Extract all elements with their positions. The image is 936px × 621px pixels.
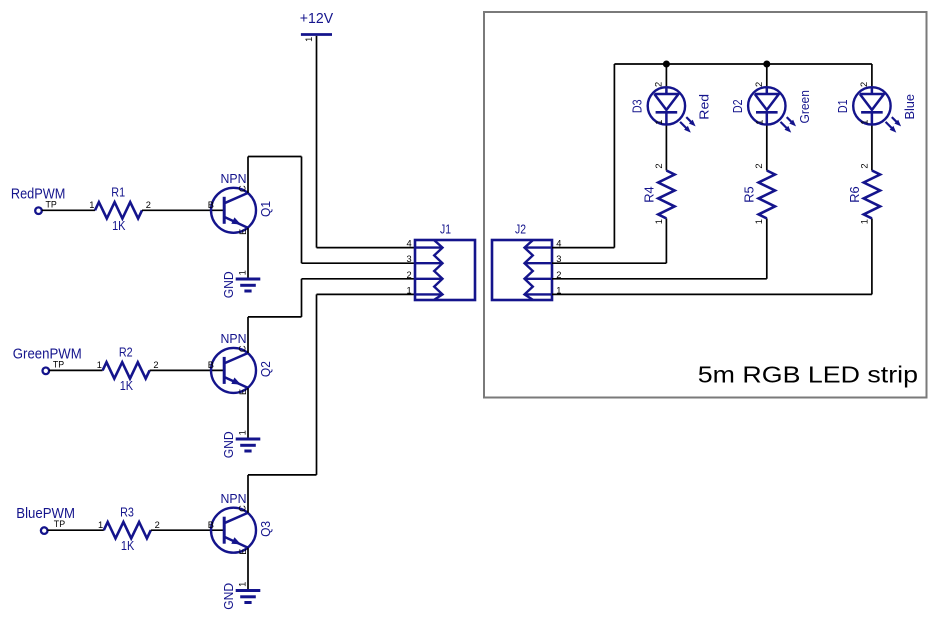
svg-text:1: 1 xyxy=(755,120,765,125)
svg-text:2: 2 xyxy=(859,82,869,87)
svg-text:2: 2 xyxy=(654,163,664,168)
svg-text:NPN: NPN xyxy=(221,172,247,186)
svg-text:1: 1 xyxy=(304,37,314,42)
svg-text:J1: J1 xyxy=(440,223,451,237)
svg-text:B: B xyxy=(208,360,214,370)
svg-text:2: 2 xyxy=(146,200,151,210)
svg-text:GreenPWM: GreenPWM xyxy=(13,345,82,362)
svg-text:1: 1 xyxy=(89,200,94,210)
svg-text:C: C xyxy=(238,345,248,352)
svg-text:4: 4 xyxy=(407,239,412,249)
svg-text:1: 1 xyxy=(654,120,664,125)
svg-text:Q2: Q2 xyxy=(259,361,273,377)
svg-text:GND: GND xyxy=(222,583,236,610)
svg-text:Green: Green xyxy=(798,90,812,124)
svg-text:E: E xyxy=(238,229,248,235)
svg-text:BluePWM: BluePWM xyxy=(16,505,75,522)
svg-text:R1: R1 xyxy=(111,185,125,199)
svg-text:C: C xyxy=(238,185,248,192)
svg-text:Blue: Blue xyxy=(903,94,917,120)
svg-text:2: 2 xyxy=(754,82,764,87)
svg-text:2: 2 xyxy=(153,360,158,370)
svg-text:GND: GND xyxy=(222,431,236,458)
svg-text:1: 1 xyxy=(97,360,102,370)
svg-text:E: E xyxy=(238,389,248,395)
svg-text:2: 2 xyxy=(654,82,664,87)
svg-text:1: 1 xyxy=(860,120,870,125)
svg-text:Q1: Q1 xyxy=(259,201,273,217)
svg-text:1K: 1K xyxy=(121,539,135,553)
svg-text:2: 2 xyxy=(754,163,764,168)
svg-text:NPN: NPN xyxy=(221,492,247,506)
svg-text:1: 1 xyxy=(237,270,247,275)
svg-text:5m RGB LED strip: 5m RGB LED strip xyxy=(698,361,918,387)
svg-text:1: 1 xyxy=(859,219,869,224)
svg-text:1: 1 xyxy=(98,520,103,530)
svg-text:R2: R2 xyxy=(119,346,133,360)
svg-text:2: 2 xyxy=(407,270,412,280)
svg-text:R6: R6 xyxy=(848,186,862,202)
svg-text:GND: GND xyxy=(222,271,236,298)
svg-text:D2: D2 xyxy=(731,99,745,113)
svg-text:RedPWM: RedPWM xyxy=(11,185,66,202)
svg-text:3: 3 xyxy=(407,254,412,264)
svg-text:1: 1 xyxy=(237,430,247,435)
svg-text:1: 1 xyxy=(754,219,764,224)
svg-text:R3: R3 xyxy=(120,505,134,519)
svg-text:1K: 1K xyxy=(112,219,126,233)
svg-text:Q3: Q3 xyxy=(259,521,273,537)
svg-text:B: B xyxy=(208,200,214,210)
svg-text:2: 2 xyxy=(155,520,160,530)
svg-text:1: 1 xyxy=(654,219,664,224)
svg-text:D3: D3 xyxy=(631,99,645,113)
svg-text:+12V: +12V xyxy=(300,10,333,27)
svg-text:NPN: NPN xyxy=(221,332,247,346)
svg-text:1K: 1K xyxy=(120,379,134,393)
svg-text:J2: J2 xyxy=(515,223,526,237)
svg-text:B: B xyxy=(208,520,214,530)
svg-text:TP: TP xyxy=(53,359,64,369)
svg-text:2: 2 xyxy=(859,163,869,168)
svg-text:R5: R5 xyxy=(743,186,757,202)
svg-text:C: C xyxy=(238,505,248,512)
svg-text:TP: TP xyxy=(46,199,57,209)
svg-text:Red: Red xyxy=(698,94,712,120)
svg-text:E: E xyxy=(238,549,248,555)
svg-text:1: 1 xyxy=(407,285,412,295)
svg-text:TP: TP xyxy=(54,519,65,529)
svg-text:1: 1 xyxy=(237,582,247,587)
svg-text:D1: D1 xyxy=(836,99,850,113)
svg-text:R4: R4 xyxy=(642,186,656,202)
